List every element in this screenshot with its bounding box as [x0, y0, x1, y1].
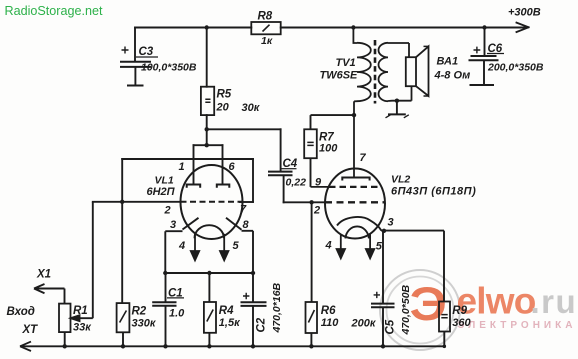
wire VL1 grid box top [122, 158, 253, 160]
node speaker gnd [395, 99, 399, 103]
capacitor C5 [371, 231, 395, 346]
svg-text:2: 2 [313, 205, 320, 217]
wire R5 top lead [206, 28, 208, 87]
wire C4 to VL2 grid [284, 201, 326, 203]
capacitor C4 [268, 169, 297, 176]
node +300V arrow [517, 23, 529, 32]
capacitor C2 [241, 273, 267, 346]
svg-text:100: 100 [319, 143, 338, 155]
resistor R4 labels [219, 305, 241, 329]
transformer TV1 secondary winding [378, 43, 411, 101]
tube VL1 designator [147, 175, 176, 199]
svg-text:Х1: Х1 [36, 269, 51, 281]
svg-text:VL1: VL1 [155, 175, 174, 187]
node grid VL2 [309, 200, 313, 204]
tube VL1 heater pin4 arrow [191, 234, 199, 260]
svg-text:C5: C5 [385, 319, 397, 334]
svg-text:R8: R8 [258, 11, 273, 23]
svg-text:C1: C1 [168, 287, 183, 299]
resistor R8 [251, 22, 280, 34]
transformer TV1 core [374, 40, 377, 104]
svg-text:TW6SE: TW6SE [320, 70, 359, 82]
svg-text:R5: R5 [217, 89, 232, 101]
capacitor C3 labels [139, 46, 197, 74]
wire R5 bottom lead [206, 115, 208, 129]
tube VL1 cathode pin3 [165, 218, 198, 231]
wire VL1 pin7 stub [240, 201, 253, 203]
node gnd R9 [443, 345, 447, 349]
node rail-R5 [205, 25, 209, 29]
capacitor C1 [152, 273, 184, 346]
node cathode VL2 [382, 229, 386, 233]
resistor R6 [306, 202, 318, 346]
svg-text:RadioStorage.net: RadioStorage.net [5, 4, 104, 18]
svg-text:4: 4 [325, 240, 332, 252]
wire R1 wiper to grid [93, 201, 122, 203]
svg-text:1,5к: 1,5к [219, 317, 241, 329]
svg-text:6П43П (6П18П): 6П43П (6П18П) [391, 186, 476, 198]
svg-text:2: 2 [164, 205, 171, 217]
svg-text:R4: R4 [219, 305, 234, 317]
svg-text:33к: 33к [73, 322, 92, 334]
node gnd C2 [251, 344, 255, 348]
svg-text:470,0*16В: 470,0*16В [271, 282, 283, 333]
svg-text:VL2: VL2 [391, 174, 410, 186]
tube VL2 anode pin7 [342, 101, 369, 180]
svg-text:3: 3 [170, 219, 176, 231]
svg-text:TV1: TV1 [336, 57, 356, 69]
resistor R8 labels [258, 11, 273, 48]
svg-text:360: 360 [452, 317, 471, 329]
tube VL1 envelope [181, 165, 243, 239]
node gnd R1 [62, 344, 66, 348]
svg-text:200,0*350В: 200,0*350В [487, 62, 544, 74]
potentiometer R1 [59, 304, 71, 347]
capacitor C4 labels [283, 158, 307, 189]
capacitor C2 labels [256, 282, 284, 333]
svg-text:+300В: +300В [508, 7, 541, 19]
resistor R2 labels [132, 306, 157, 330]
wire VL1 grid box left vertical to R2 [121, 159, 123, 303]
tube VL2 heater arc [345, 226, 369, 238]
node cathode rail right [251, 271, 255, 275]
wire +300V rail right segment [281, 27, 527, 29]
capacitor C6 [469, 28, 505, 86]
svg-text:8: 8 [243, 219, 250, 231]
tube VL1 heater arc [195, 225, 224, 238]
tube VL1 anode pin1 [187, 185, 201, 188]
resistor R6 labels [321, 305, 377, 330]
svg-text:200к: 200к [351, 318, 377, 330]
tube VL1 heater pin5 arrow [220, 234, 228, 260]
tube VL2 cathode pin3 [337, 217, 381, 231]
tube VL1 pin labels [164, 161, 250, 252]
svg-text:R6: R6 [321, 305, 336, 317]
wire bottom ground rail [20, 342, 444, 351]
wire VL1 grid box right vertical [252, 159, 254, 202]
tube VL1 anode pin6 [217, 185, 230, 188]
elwo.ru watermark ring [380, 270, 460, 350]
node gnd R4 [207, 344, 211, 348]
svg-text:Вход: Вход [7, 306, 35, 318]
node gnd R6 [309, 344, 313, 348]
node grid VL1 [120, 200, 124, 204]
resistor R7 labels [319, 132, 338, 155]
svg-text:5: 5 [376, 241, 383, 253]
svg-text:ХТ: ХТ [22, 324, 39, 336]
tube VL2 envelope [325, 169, 385, 239]
transformer TV1 primary winding [353, 28, 370, 102]
potentiometer R1 labels [73, 305, 92, 334]
connector X1 input arrow [34, 284, 65, 304]
svg-text:ВА1: ВА1 [437, 56, 459, 68]
resistor R4 [204, 273, 216, 346]
svg-text:C4: C4 [283, 158, 298, 170]
svg-text:1к: 1к [261, 35, 273, 47]
capacitor C1 labels [168, 287, 185, 319]
svg-text:ЭЛЕКТРОНИКА: ЭЛЕКТРОНИКА [458, 320, 577, 331]
svg-text:6Н2П: 6Н2П [147, 186, 176, 198]
svg-text:330к: 330к [132, 318, 157, 330]
svg-text:C2: C2 [256, 317, 268, 332]
svg-text:R9: R9 [452, 305, 467, 317]
resistor R2 [117, 303, 130, 346]
capacitor C3 [120, 47, 158, 86]
node anode tee [205, 143, 209, 147]
ground below transformer [386, 101, 409, 118]
capacitor C6 labels [487, 43, 544, 74]
resistor R7 [304, 115, 317, 187]
capacitor C5 labels [385, 284, 412, 335]
svg-text:20: 20 [216, 102, 230, 114]
wire C4 top lead [280, 129, 282, 171]
tube VL2 heater pin4 arrow [337, 234, 345, 258]
resistor R5 [201, 87, 214, 115]
node rail-C6 [482, 25, 486, 29]
tube VL2 screen grid pin9 dashed [329, 186, 381, 188]
tube VL1 grid dashed [181, 201, 243, 203]
svg-text:5: 5 [233, 240, 240, 252]
svg-text:elwo: elwo [457, 281, 536, 322]
resistor R9 labels [452, 305, 471, 329]
wire C4 bottom lead [283, 176, 285, 203]
wire +300V rail left segment [135, 27, 251, 29]
svg-text:100,0*350В: 100,0*350В [141, 62, 197, 74]
node R5-C4 [205, 127, 209, 131]
tube VL2 heater pin5 arrow [366, 234, 374, 258]
svg-text:1.0: 1.0 [169, 308, 185, 320]
svg-text:470,0*50В: 470,0*50В [400, 284, 412, 335]
potentiometer R1 wiper [71, 202, 93, 321]
wire anode coupling horizontal to C4 [207, 128, 281, 130]
node gnd C5 [381, 344, 385, 348]
wire VL1 anode tee vertical [206, 129, 208, 145]
wire C3 top lead [134, 28, 136, 61]
svg-text:7: 7 [360, 152, 367, 164]
svg-text:C6: C6 [488, 43, 503, 55]
speaker BA1 [406, 46, 429, 96]
VL1 cathode network rail [165, 231, 253, 273]
svg-text:7: 7 [240, 204, 247, 216]
tube VL1 cathode pin8 [226, 218, 253, 231]
tube VL2 control grid pin2 dashed [325, 201, 385, 203]
svg-text:Э: Э [410, 278, 447, 331]
svg-text:1: 1 [179, 161, 185, 173]
svg-text:6: 6 [229, 161, 236, 173]
svg-text:3: 3 [388, 217, 394, 229]
wire VL1 anode tee horizontal [194, 144, 223, 146]
transformer TV1 labels [320, 57, 359, 82]
svg-text:R1: R1 [73, 305, 88, 317]
svg-text:C3: C3 [139, 46, 154, 58]
wire R7 branch from anode [311, 114, 355, 116]
svg-text:.ru: .ru [531, 283, 578, 320]
node cathode rail mid [207, 271, 211, 275]
node rail-TV1 [351, 25, 355, 29]
wire VL1 anode lead pin1 [193, 145, 195, 184]
speaker BA1 labels [434, 56, 471, 82]
tube VL2 screen grid stub [311, 186, 330, 188]
svg-text:110: 110 [321, 317, 339, 329]
svg-text:4-8 Ом: 4-8 Ом [434, 70, 471, 82]
svg-text:4: 4 [178, 240, 185, 252]
svg-text:0,22: 0,22 [286, 177, 307, 189]
wire VL2 cathode to R9 [381, 230, 444, 232]
tube VL2 pin labels [313, 152, 394, 253]
node gnd C1 [163, 344, 167, 348]
elwo.ru watermark logo [410, 278, 578, 331]
wire grid node to VL1 pin2 [122, 201, 180, 203]
node cathode rail left [163, 271, 167, 275]
tube VL2 designator [391, 174, 476, 198]
svg-text:9: 9 [315, 177, 322, 189]
resistor R9 [439, 231, 450, 347]
node gnd R2 [121, 344, 125, 348]
wire VL1 anode lead pin6 [222, 145, 224, 184]
svg-text:30к: 30к [242, 102, 261, 114]
node anode VL2 [352, 113, 356, 117]
svg-text:R2: R2 [132, 306, 147, 318]
resistor R5 labels [216, 89, 261, 115]
